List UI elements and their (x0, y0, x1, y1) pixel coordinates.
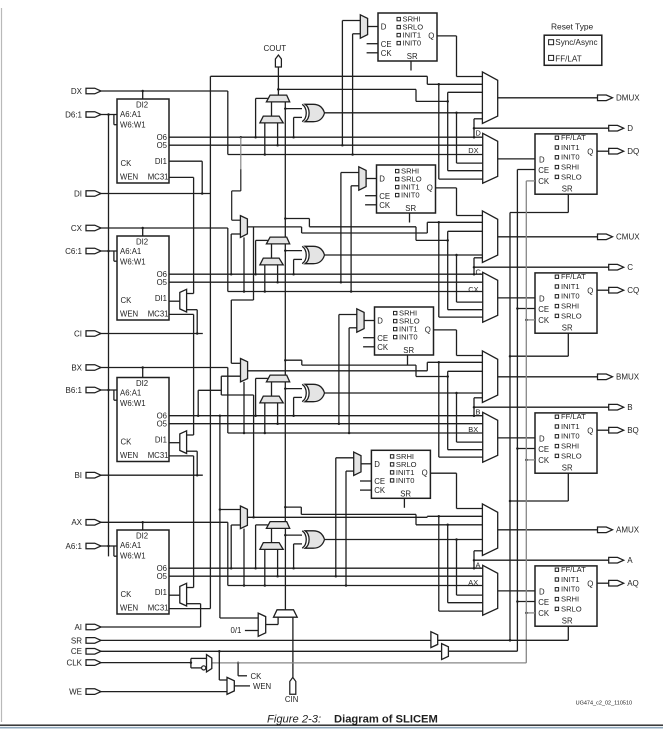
input pin BI (74, 471, 101, 480)
svg-text:BX: BX (71, 363, 82, 372)
svg-text:CE: CE (71, 647, 82, 656)
svg-text:SRHI: SRHI (561, 442, 579, 451)
wire O5 A (169, 575, 483, 578)
flip-flop/latch CQ (535, 272, 597, 333)
svg-text:CX: CX (468, 285, 478, 294)
svg-text:D: D (539, 295, 545, 304)
svg-text:SRLO: SRLO (561, 172, 582, 181)
input pin C6:1 (65, 247, 101, 256)
XOR gate A (sum) (302, 531, 324, 548)
svg-text:B6:1: B6:1 (66, 386, 83, 395)
mux SR sync/async (431, 632, 438, 648)
svg-text:A6:A1: A6:A1 (120, 247, 141, 256)
input pin CE (71, 647, 101, 656)
C5FF input mux (359, 167, 366, 190)
svg-text:SRHI: SRHI (561, 163, 579, 172)
XOR gate D (sum) (302, 104, 324, 121)
wire BX input net (101, 366, 483, 434)
svg-text:D: D (377, 317, 383, 326)
svg-text:SR: SR (407, 52, 418, 61)
wire A output mux to AQ flip-flop D (498, 590, 535, 592)
svg-text:A6:A1: A6:A1 (120, 541, 141, 550)
svg-text:DI2: DI2 (136, 379, 148, 388)
svg-text:Diagram of SLICEM: Diagram of SLICEM (334, 714, 438, 726)
svg-text:INIT1: INIT1 (561, 422, 580, 431)
svg-text:Q: Q (425, 325, 431, 334)
svg-text:FF/LAT: FF/LAT (561, 565, 586, 574)
wire AI to DI1 mux (101, 604, 201, 627)
svg-text:WEN: WEN (120, 173, 138, 182)
svg-text:DI2: DI2 (136, 532, 148, 541)
svg-text:SRHI: SRHI (561, 595, 579, 604)
svg-text:D: D (381, 23, 387, 32)
svg-text:CK: CK (538, 177, 550, 186)
wire O5 to C5FF mux (341, 173, 359, 283)
wire O6 tap to XOR B bottom input (294, 397, 302, 415)
wire carry chain tap to BMUX (284, 359, 483, 450)
figure number tag (576, 700, 632, 706)
wire carry-in tap to XOR A top input (284, 534, 302, 537)
label C at output mux (476, 268, 482, 277)
wire AX select to F7AMUX (243, 529, 246, 587)
wire CE rail (516, 170, 518, 652)
wire O6 D (169, 136, 483, 139)
output pin AQ (609, 579, 639, 588)
wire carry chain C to B (284, 244, 286, 375)
caption text (267, 714, 438, 726)
flip-flop/latch AQ (535, 565, 597, 626)
wire carry-in tap to XOR B top input (284, 387, 302, 390)
svg-text:DI2: DI2 (136, 101, 148, 110)
wire CK tap to DMUX (211, 76, 483, 179)
wire CE stub C5FF (365, 195, 376, 197)
input pin DX (71, 87, 101, 96)
wire carry chain D to C (284, 102, 286, 237)
wire XOR C output (sum) to output muxes (325, 254, 483, 302)
svg-text:DX: DX (71, 87, 83, 96)
svg-text:INIT0: INIT0 (403, 39, 422, 48)
output mux CMUX (482, 211, 497, 263)
wire D5FF mux output to D (368, 26, 378, 28)
wire F8MUX output to BMUX (248, 361, 483, 457)
svg-text:CK: CK (379, 201, 391, 210)
wire O6 select to carry mux C (256, 240, 268, 274)
wire O6 select to carry mux A (256, 525, 268, 568)
wire carry DI mux C output (271, 244, 273, 258)
svg-text:SR: SR (562, 617, 573, 626)
wire C5FF Q to CMUX (436, 188, 483, 216)
svg-text:BMUX: BMUX (616, 373, 640, 382)
svg-text:B: B (627, 403, 632, 412)
mux CYINIT (274, 610, 298, 617)
mux 0/1 (CYINIT constant select) (231, 613, 266, 636)
svg-text:CX: CX (71, 224, 83, 233)
wire B5FF Q to BMUX (434, 330, 483, 356)
svg-text:W6:W1: W6:W1 (120, 551, 146, 560)
svg-text:CK: CK (121, 438, 133, 447)
label D at output mux (476, 129, 481, 138)
wire O6 A (169, 567, 483, 570)
svg-text:CLK: CLK (66, 659, 82, 668)
carry mux CYC (266, 237, 289, 244)
svg-text:DI2: DI2 (136, 238, 148, 247)
carry DI mux A (O5/AX) (260, 543, 283, 550)
wire O6 C riser to output mux and C output (473, 258, 609, 274)
wire SR rail (509, 213, 512, 642)
DI1 input mux A (180, 583, 187, 606)
wire O5 B (169, 422, 483, 425)
wire O5 tap to carry DI mux A (277, 549, 279, 576)
svg-text:DQ: DQ (627, 147, 639, 156)
svg-text:WEN: WEN (120, 310, 138, 319)
svg-text:UG474_c2_02_110510: UG474_c2_02_110510 (576, 700, 632, 706)
carry mux CYB (266, 375, 289, 382)
output pin B (609, 403, 633, 412)
wire CK stub A5FF (360, 489, 371, 491)
output pin DQ (609, 147, 640, 156)
wire carry chain tap to CMUX (284, 217, 483, 309)
wire AX tap to carry DI mux A (264, 549, 266, 585)
mux WEN (227, 677, 234, 694)
page left border (1, 8, 3, 722)
svg-text:INIT1: INIT1 (561, 143, 580, 152)
label CX at output mux (468, 285, 478, 294)
wire CE net (101, 650, 518, 653)
wire carry DI mux A output (271, 528, 273, 542)
svg-text:CK: CK (121, 590, 133, 599)
wire DX input net (101, 90, 483, 156)
wire CE to WEN mux (219, 651, 227, 680)
wire AX input net (101, 521, 483, 587)
wire AX to A5FF mux (346, 471, 354, 585)
svg-text:SR: SR (562, 464, 573, 473)
DI1 input mux B (180, 431, 187, 454)
wire DI to D LUT DI1 (101, 161, 211, 195)
label BX at output mux (468, 425, 478, 434)
svg-text:WE: WE (69, 688, 82, 697)
wire SR to CQ (509, 333, 569, 357)
wire XOR B output (sum) to output muxes (325, 392, 483, 442)
wire O5 C (169, 281, 483, 284)
output pin CQ (609, 286, 640, 295)
svg-text:SR: SR (71, 636, 82, 645)
wire C5FF mux output to D (366, 178, 376, 180)
input pin AI (74, 623, 101, 632)
svg-text:DI1: DI1 (155, 588, 167, 597)
carry mux CYA (266, 522, 289, 529)
wire W6:W1 write address rail (108, 115, 110, 557)
wire CE stub B5FF (363, 337, 374, 339)
mux CE (442, 644, 449, 660)
wire XOR D output (sum) to output muxes (325, 112, 483, 164)
svg-text:AQ: AQ (627, 579, 639, 588)
output mux C/CQ select (483, 272, 498, 322)
svg-text:C6:1: C6:1 (65, 247, 82, 256)
svg-text:CE: CE (377, 334, 388, 343)
wire O5 to B5FF mux (339, 315, 357, 424)
output mux AMUX (482, 504, 497, 556)
output pin D (609, 124, 634, 133)
output mux D/DQ select (483, 133, 498, 183)
flip-flop D5FF (378, 13, 437, 61)
svg-text:Q: Q (428, 31, 434, 40)
svg-text:D: D (476, 129, 481, 138)
D5FF input mux (360, 15, 367, 38)
wire F7AMUX output branch to F8MUX (221, 376, 253, 517)
svg-text:0/1: 0/1 (231, 626, 242, 635)
svg-text:AX: AX (71, 518, 82, 527)
svg-text:SRLO: SRLO (561, 604, 582, 613)
svg-text:BQ: BQ (627, 426, 639, 435)
wire 0/1 label lead (245, 630, 258, 632)
output pin AMUX (598, 526, 640, 535)
svg-text:Q: Q (587, 286, 593, 295)
svg-text:INIT0: INIT0 (561, 153, 580, 162)
wire O6 D to F7BMUX (232, 137, 241, 220)
legend Reset Type (544, 21, 602, 65)
svg-text:O5: O5 (157, 278, 168, 287)
XOR gate C (sum) (302, 246, 324, 263)
svg-text:CIN: CIN (285, 695, 298, 704)
svg-text:D: D (539, 588, 545, 597)
wire COUT net (264, 44, 287, 95)
svg-text:INIT0: INIT0 (396, 476, 415, 485)
wire O6 B to F7AMUX (220, 509, 241, 511)
svg-text:CQ: CQ (627, 286, 639, 295)
wire CK rail (clock) (212, 181, 527, 663)
svg-text:Q: Q (427, 183, 433, 192)
output pin A (609, 556, 634, 565)
wire D6:1 to A6:A1 and W6:W1 (101, 113, 118, 124)
svg-text:DI1: DI1 (155, 435, 167, 444)
flip-flop C5FF (377, 165, 436, 213)
svg-text:DX: DX (468, 146, 478, 155)
svg-text:D6:1: D6:1 (65, 110, 82, 119)
svg-text:CE: CE (538, 305, 549, 314)
svg-text:CK: CK (251, 672, 263, 681)
svg-text:DMUX: DMUX (616, 94, 640, 103)
wire SR to BQ (509, 473, 569, 502)
svg-text:W6:W1: W6:W1 (120, 257, 146, 266)
wire SR net (101, 639, 569, 642)
wire carry DI mux B output (271, 382, 273, 396)
svg-text:FF/LAT: FF/LAT (561, 133, 586, 142)
svg-text:SR: SR (403, 346, 414, 355)
wire B6:1 to A6:A1 and W6:W1 (101, 389, 118, 400)
svg-text:CK: CK (538, 316, 550, 325)
svg-text:BX: BX (468, 425, 478, 434)
svg-text:Q: Q (587, 579, 593, 588)
wire CI to DI1 mux (101, 310, 203, 335)
LUT6 D (117, 99, 169, 183)
mux F7AMUX (240, 506, 247, 529)
input pin CLK (66, 659, 101, 668)
wire A5FF Q to AMUX (430, 473, 482, 508)
svg-text:D: D (539, 435, 545, 444)
wire O6 D riser to output mux and D output (473, 119, 609, 137)
svg-text:CK: CK (538, 456, 550, 465)
wire CK rail to BQ (525, 459, 535, 462)
wire CK rail to DQ (526, 180, 535, 182)
wire O6 tap to XOR C bottom input (294, 259, 302, 274)
input pin B6:1 (66, 386, 101, 395)
wire O6 tap to XOR D bottom input (294, 117, 302, 137)
svg-text:FF/LAT: FF/LAT (561, 412, 586, 421)
wire O5 tap to carry DI mux D (277, 123, 279, 145)
wire SR stub C5FF (409, 213, 411, 223)
wire CX select to F7BMUX (243, 237, 246, 292)
svg-text:SR: SR (405, 204, 416, 213)
svg-text:INIT1: INIT1 (561, 282, 580, 291)
wire DI1 mux A output to LUT (169, 594, 180, 596)
svg-text:C: C (627, 263, 633, 272)
label B at output mux (476, 408, 481, 417)
wire O6 B tap to F8MUX input (197, 390, 221, 417)
svg-text:FF/LAT: FF/LAT (561, 272, 586, 281)
svg-text:Q: Q (587, 426, 593, 435)
svg-text:CK: CK (121, 296, 133, 305)
svg-text:Q: Q (422, 469, 428, 478)
wire O6 B (169, 414, 483, 417)
svg-text:A: A (476, 561, 481, 570)
wire D5FF Q to DMUX (437, 36, 482, 77)
svg-text:D: D (627, 124, 633, 133)
svg-text:INIT0: INIT0 (401, 191, 420, 200)
svg-text:A: A (627, 556, 633, 565)
svg-text:A6:1: A6:1 (66, 542, 83, 551)
wire BMUX output (498, 376, 598, 378)
wire DX tap to carry DI mux D (264, 123, 266, 155)
svg-text:O5: O5 (157, 141, 168, 150)
svg-text:CI: CI (74, 329, 82, 338)
DI1 input mux C (180, 289, 187, 312)
wire CK stub D5FF (367, 52, 378, 54)
wire CK rail to CQ (525, 319, 535, 322)
wire carry chain tap to DMUX (277, 88, 483, 171)
svg-text:INIT1: INIT1 (561, 575, 580, 584)
output mux DMUX (482, 72, 497, 124)
wire O6 B riser to output mux and B output (473, 398, 609, 416)
input pin D6:1 (65, 110, 101, 119)
output mux A/AQ select (483, 565, 498, 615)
A5FF input mux (354, 452, 361, 475)
wire BX to B5FF mux (349, 328, 357, 433)
wire CE rail to CQ (516, 307, 535, 310)
svg-text:B: B (476, 408, 481, 417)
label AX at output mux (468, 578, 478, 587)
wire O6 select to carry mux B (256, 378, 268, 415)
wire SR stub B5FF (407, 355, 409, 365)
wire carry-in tap to XOR C top input (284, 249, 302, 252)
svg-text:DI1: DI1 (155, 157, 167, 166)
wire CE rail to DQ (517, 169, 535, 171)
wire DI1 mux C output to LUT (169, 300, 180, 302)
wire DQ Q output (597, 150, 609, 152)
wire DX to D5FF mux (353, 34, 361, 155)
wire CE stub D5FF (367, 43, 378, 45)
input pin A6:1 (66, 542, 101, 551)
wire MC31 from upper LUT to DI1 mux B (169, 314, 194, 435)
wire O5 tap to carry DI mux C (277, 265, 279, 282)
svg-text:W6:W1: W6:W1 (120, 399, 146, 408)
svg-text:AMUX: AMUX (616, 526, 640, 535)
wire carry chain tap to AMUX (284, 506, 483, 603)
svg-text:D: D (379, 175, 385, 184)
mux CLK polarity (207, 655, 212, 672)
wire CX tap to carry DI mux C (264, 265, 266, 292)
wire WE net (101, 691, 228, 693)
caption rule (0, 725, 663, 728)
wire SR stub A5FF (403, 498, 405, 508)
svg-text:MC31: MC31 (148, 173, 169, 182)
svg-text:Q: Q (587, 147, 593, 156)
mux F8MUX (241, 359, 248, 382)
flip-flop B5FF (375, 307, 434, 355)
svg-text:O5: O5 (157, 572, 168, 581)
wire O5 to D5FF mux (342, 21, 360, 146)
wire XOR A output (sum) to output muxes (325, 538, 483, 595)
svg-text:WEN: WEN (253, 682, 271, 691)
output pin DMUX (598, 94, 641, 103)
wire F7BMUX output branch to F8MUX (231, 227, 253, 363)
svg-text:AX: AX (468, 578, 478, 587)
svg-text:CE: CE (538, 166, 549, 175)
wire AMUX output (498, 529, 598, 531)
svg-text:CE: CE (538, 598, 549, 607)
flip-flop/latch BQ (535, 412, 597, 473)
wire CYINIT mux output to carry chain A (284, 528, 286, 609)
svg-text:MC31: MC31 (148, 451, 169, 460)
svg-text:A6:A1: A6:A1 (120, 389, 141, 398)
svg-text:INIT0: INIT0 (399, 333, 418, 342)
wire CK stub C5FF (365, 204, 376, 206)
wire O6 B riser to 0/1 mux (219, 416, 259, 618)
svg-text:CK: CK (377, 343, 389, 352)
svg-text:Figure 2-3:: Figure 2-3: (267, 714, 321, 726)
wire A5FF mux output to D (361, 463, 371, 465)
wire CMUX output (498, 236, 598, 238)
svg-text:SR: SR (562, 185, 573, 194)
svg-text:BI: BI (74, 471, 82, 480)
flip-flop A5FF (371, 450, 430, 498)
wire CLK net with bypass and inverter (101, 658, 207, 670)
wire 0/1 mux output to CYINIT mux (266, 617, 278, 624)
svg-text:INIT0: INIT0 (561, 585, 580, 594)
wire carry chain B to A (284, 382, 286, 522)
wire CE stub A5FF (360, 480, 371, 482)
svg-text:WEN: WEN (120, 451, 138, 460)
wire BQ Q output (597, 429, 609, 431)
input pin CX (71, 224, 101, 233)
wire BX select to F8MUX (243, 382, 246, 434)
wire O6 A riser to output mux and A output (473, 551, 609, 568)
svg-text:MC31: MC31 (148, 310, 169, 319)
svg-text:CK: CK (381, 49, 393, 58)
wire carry-in tap to XOR D top input (284, 107, 302, 110)
label A at output mux (476, 561, 481, 570)
wire A6:1 to A6:A1 and W6:W1 (101, 545, 118, 556)
wire D output mux to DQ flip-flop D (498, 158, 535, 160)
carry mux CYD (266, 95, 289, 102)
input pin CI (74, 329, 101, 338)
wire O5 tap to carry DI mux B (277, 403, 279, 424)
wire MC31 A rail to DMUX (169, 76, 210, 608)
wire C6:1 to A6:A1 and W6:W1 (101, 250, 118, 261)
wire O6 A to F7AMUX (231, 525, 240, 568)
XOR gate B (sum) (302, 384, 324, 401)
carry DI mux D (O5/DX) (260, 116, 283, 123)
svg-text:WEN: WEN (120, 604, 138, 613)
